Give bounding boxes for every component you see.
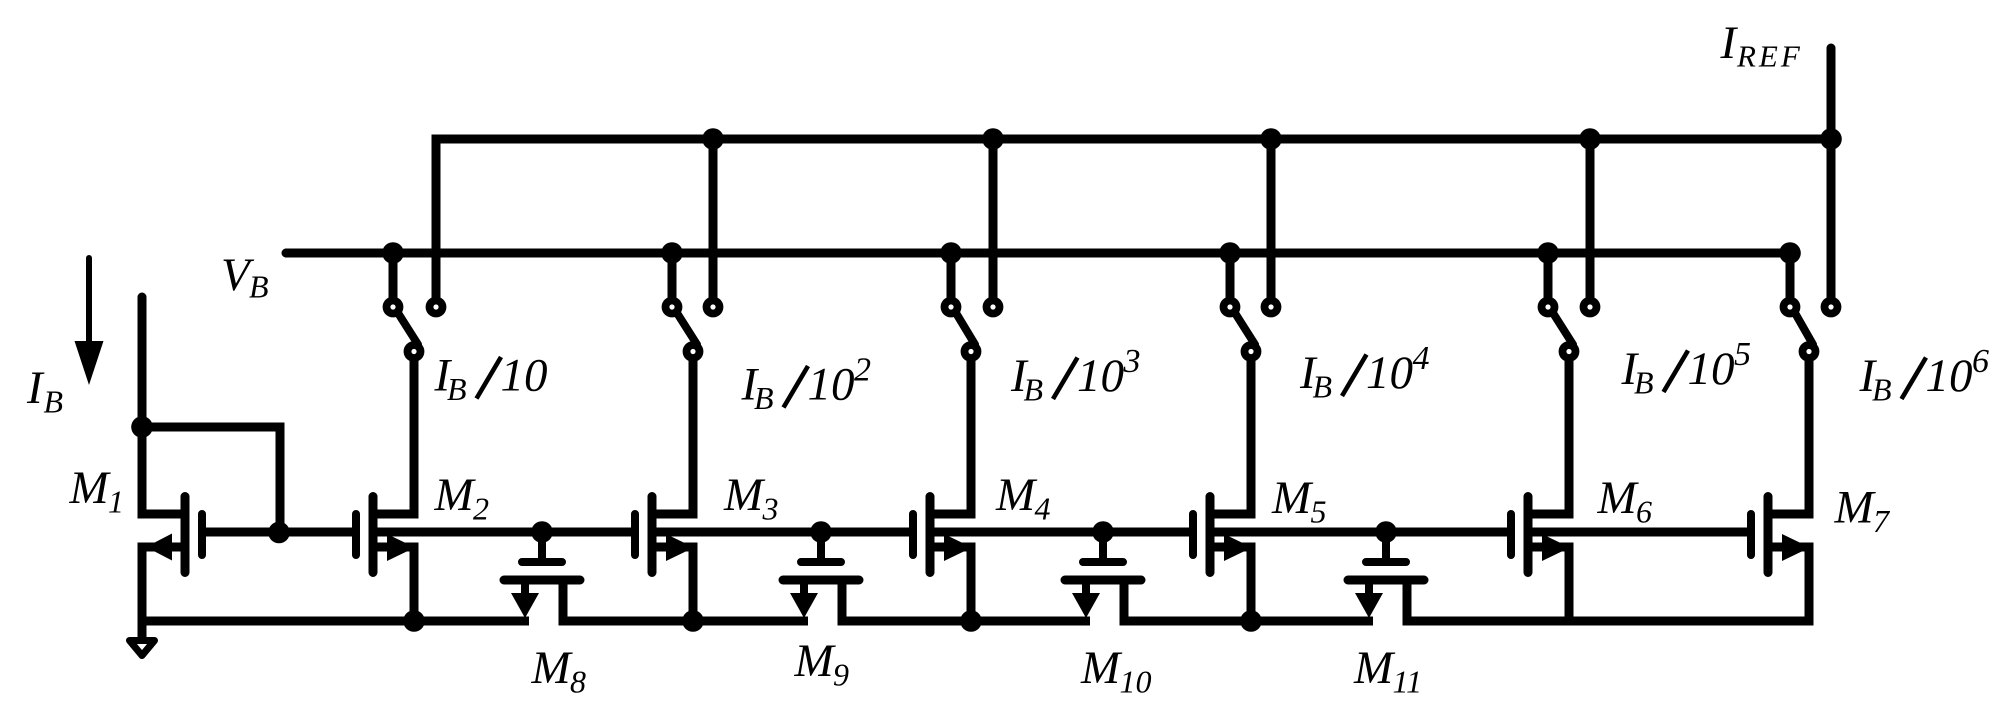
- svg-text:B: B: [1872, 372, 1892, 408]
- svg-text:B: B: [1024, 372, 1044, 408]
- svg-text:1: 1: [108, 484, 124, 520]
- svg-text:B: B: [249, 269, 269, 305]
- svg-text:4: 4: [1035, 491, 1051, 527]
- svg-text:M: M: [1353, 642, 1396, 694]
- svg-text:2: 2: [473, 491, 489, 527]
- svg-text:M: M: [1597, 472, 1640, 524]
- svg-text:M: M: [794, 635, 837, 687]
- svg-text:M: M: [995, 469, 1038, 521]
- svg-text:10: 10: [1077, 350, 1124, 402]
- svg-text:10: 10: [1366, 347, 1413, 399]
- svg-text:8: 8: [570, 664, 586, 700]
- svg-text:M: M: [69, 462, 112, 514]
- svg-text:B: B: [44, 384, 64, 420]
- svg-text:M: M: [1834, 482, 1877, 534]
- svg-text:B: B: [754, 380, 774, 416]
- svg-text:REF: REF: [1736, 39, 1803, 74]
- svg-text:10: 10: [1688, 343, 1735, 395]
- svg-text:10: 10: [1120, 664, 1152, 700]
- svg-text:I: I: [26, 362, 45, 414]
- svg-text:6: 6: [1972, 343, 1989, 380]
- svg-text:M: M: [723, 469, 766, 521]
- svg-text:B: B: [447, 371, 467, 407]
- svg-text:4: 4: [1413, 340, 1430, 377]
- svg-text:B: B: [1634, 365, 1654, 401]
- svg-text:10: 10: [1926, 350, 1973, 402]
- svg-text:10: 10: [808, 359, 855, 411]
- svg-text:M: M: [1080, 642, 1123, 694]
- svg-text:7: 7: [1873, 503, 1891, 539]
- svg-text:3: 3: [762, 491, 779, 527]
- svg-text:11: 11: [1393, 664, 1423, 700]
- svg-text:M: M: [1271, 472, 1314, 524]
- svg-text:10: 10: [501, 350, 548, 402]
- svg-text:I: I: [1720, 17, 1739, 69]
- svg-text:B: B: [1313, 369, 1333, 405]
- svg-text:9: 9: [833, 657, 849, 693]
- svg-text:6: 6: [1636, 494, 1652, 530]
- svg-text:5: 5: [1311, 494, 1327, 530]
- svg-text:M: M: [434, 469, 477, 521]
- svg-text:2: 2: [854, 352, 871, 389]
- svg-text:M: M: [531, 642, 574, 694]
- svg-text:5: 5: [1734, 336, 1751, 373]
- svg-text:3: 3: [1123, 343, 1141, 380]
